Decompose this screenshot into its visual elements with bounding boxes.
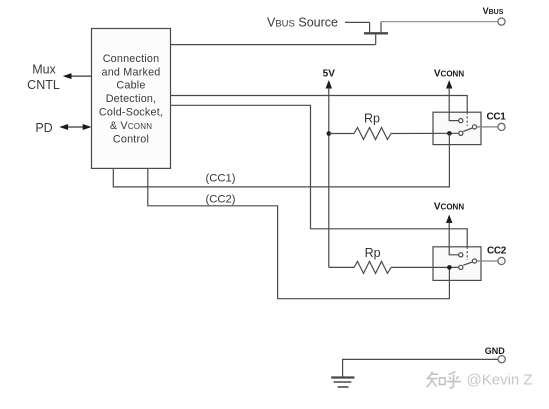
wire: PD double-headed arrow (59, 124, 91, 130)
svg-text:Cable: Cable (116, 80, 145, 92)
wire: U1 to VCONN switch 1 control (y=95.5) (171, 96, 468, 113)
switch SW2 top contact (VCONN) (459, 253, 463, 257)
svg-text:PD: PD (35, 121, 52, 135)
node VCONN supply arrow (bottom) (446, 215, 452, 224)
svg-text:VCONN: VCONN (434, 69, 464, 80)
wire: 5V rail to Rp2 (329, 266, 354, 268)
switch SW1 control linkage (dashed) (466, 112, 468, 126)
control block text (99, 53, 163, 145)
wire: 5V rail vertical (328, 88, 330, 268)
node GND terminal (498, 356, 505, 363)
wire: FET to VBUS terminal (381, 21, 498, 23)
svg-text:5V: 5V (323, 69, 336, 80)
wire: Mux CNTL arrow (points left from U1) (63, 73, 92, 79)
junction: CC2 node in SW2 (447, 265, 452, 270)
svg-text:Detection,: Detection, (106, 93, 157, 105)
wire: GND rail (343, 359, 498, 377)
node VBUS terminal (498, 18, 505, 25)
node VCONN supply arrow (top) (446, 80, 452, 89)
switch SW1 bottom contact (Rp) (459, 131, 463, 135)
switch SW1 box (433, 112, 481, 144)
resistor Rp (CC1) (354, 128, 391, 140)
svg-text:Cold-Socket,: Cold-Socket, (99, 107, 163, 119)
watermark 知乎 @Kevin Z (427, 372, 462, 389)
svg-text:Rp: Rp (365, 246, 381, 260)
svg-text:VBUS Source: VBUS Source (267, 15, 338, 29)
switch SW1 common pole (472, 125, 476, 129)
wire: VCONN vertical into switch SW2 (449, 222, 459, 255)
wire: Rp1 to switch SW1 (391, 132, 459, 134)
svg-text:CNTL: CNTL (27, 78, 60, 92)
switch SW2 lever (463, 262, 472, 265)
node 5V supply arrow (326, 80, 332, 89)
svg-text:VCONN: VCONN (434, 202, 464, 213)
svg-text:CC2: CC2 (487, 245, 507, 256)
svg-text:GND: GND (485, 346, 506, 356)
svg-text:Mux: Mux (32, 63, 56, 77)
svg-text:@Kevin Z: @Kevin Z (467, 371, 533, 388)
wire: CC1 net from SW1 down to U1 (113, 133, 449, 187)
junction: CC1 node in SW1 (447, 131, 452, 136)
wire: 5V junction to Rp1 (329, 133, 354, 135)
resistor Rp (CC2) (354, 261, 391, 273)
svg-text:CC1: CC1 (486, 111, 506, 122)
switch SW2 control linkage (dashed) (466, 247, 468, 260)
ground (331, 378, 354, 388)
switch SW2 common pole (472, 259, 476, 263)
svg-text:& VCONN: & VCONN (110, 120, 152, 132)
svg-text:Control: Control (113, 133, 149, 145)
wire: SW1 common to CC1 terminal (477, 126, 498, 128)
svg-text:Connection: Connection (103, 53, 160, 65)
junction: 5V to Rp1 (327, 131, 332, 136)
wire: Rp2 to switch SW2 (391, 266, 459, 268)
switch SW2 bottom contact (Rp) (459, 265, 463, 269)
node CC1 terminal (498, 123, 505, 130)
wire: VBUS Source to FET (345, 21, 370, 23)
control block U1 "Connection and Marked Cable Detection" (92, 29, 171, 169)
node CC2 terminal (498, 257, 505, 264)
wire: CC2 net from U1 to SW2 (148, 168, 450, 299)
label Mux CNTL (27, 63, 60, 92)
switch SW2 box (433, 247, 481, 281)
switch SW1 lever (463, 128, 472, 131)
wire: FET gate to U1 (171, 44, 376, 46)
wire: U1 to VCONN switch 2 control (y=105.3) (171, 105, 468, 246)
wire: SW2 common to CC2 terminal (477, 260, 498, 262)
switch SW1 top contact (VCONN) (459, 119, 463, 123)
wire: VCONN vertical into switch SW1 (449, 88, 459, 121)
svg-text:Rp: Rp (364, 112, 380, 126)
svg-text:(CC2): (CC2) (205, 193, 235, 205)
svg-text:(CC1): (CC1) (205, 173, 235, 185)
transistor Q1 (VBUS pass FET) (364, 22, 388, 45)
svg-text:and Marked: and Marked (101, 66, 160, 78)
